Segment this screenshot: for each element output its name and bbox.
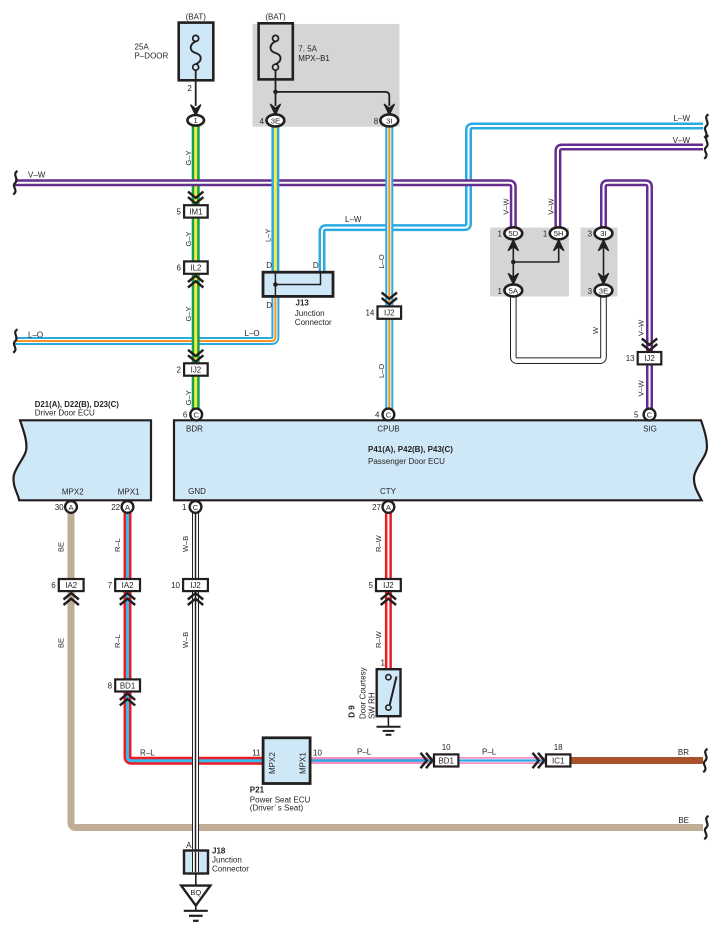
svg-text:L–O: L–O <box>377 364 386 378</box>
ground below D9 <box>377 716 401 735</box>
svg-text:G–Y: G–Y <box>184 390 193 405</box>
pin C (1) GND <box>182 501 201 513</box>
svg-text:6: 6 <box>183 411 188 420</box>
connector BD1 pin 8 <box>108 679 140 705</box>
svg-text:18: 18 <box>554 743 563 752</box>
svg-text:3E: 3E <box>599 286 608 295</box>
gray box relay block 5D/5H/5A <box>490 228 569 297</box>
oval 5A (pin 1) <box>497 284 522 296</box>
connector IJ2 pin 14 <box>365 293 401 319</box>
svg-text:5: 5 <box>177 207 182 216</box>
svg-text:R–W: R–W <box>374 630 383 648</box>
svg-text:1: 1 <box>543 230 548 239</box>
svg-text:A: A <box>125 503 130 512</box>
connector IL2 pin 6 <box>177 261 208 287</box>
svg-text:BD1: BD1 <box>439 756 454 765</box>
connector IJ2 pin 5 <box>368 579 400 605</box>
svg-text:IJ2: IJ2 <box>644 354 655 363</box>
connector IJ2 pin 10 <box>171 579 208 605</box>
wire break squiggle right V-W <box>704 135 708 159</box>
svg-text:7. 5A: 7. 5A <box>298 44 317 53</box>
connector IA2 pin 7 <box>108 579 140 605</box>
wire break squiggle right L-W <box>704 114 708 138</box>
fuse 25A P-DOOR <box>135 12 214 106</box>
svg-text:BE: BE <box>57 542 66 552</box>
Driver Door ECU box D21/D22/D23 <box>13 400 151 501</box>
svg-text:Driver Door ECU: Driver Door ECU <box>35 408 95 417</box>
svg-text:A: A <box>386 503 391 512</box>
svg-text:V–W: V–W <box>28 170 46 179</box>
svg-text:IJ2: IJ2 <box>190 581 201 590</box>
wire P-L BD1#10 to IC1#18 <box>458 757 546 764</box>
connector IA2 pin 6 <box>51 579 83 605</box>
svg-text:W–B: W–B <box>181 536 190 552</box>
svg-text:V–W: V–W <box>547 198 556 215</box>
svg-text:4: 4 <box>375 411 380 420</box>
svg-text:D 9: D 9 <box>348 705 357 718</box>
svg-text:10: 10 <box>313 748 322 757</box>
svg-text:3I: 3I <box>600 229 606 238</box>
svg-text:2: 2 <box>177 366 182 375</box>
connector IJ2 pin 13 <box>626 339 662 365</box>
wire R-W IJ2#5 to D9 switch <box>385 591 392 670</box>
wire G-Y fuse to IM1 <box>192 125 200 206</box>
wire break squiggle left L-O <box>13 329 17 353</box>
svg-text:22: 22 <box>111 503 120 512</box>
block 3I/3E inner wiring <box>598 240 608 284</box>
oval 5H (pin 1) <box>543 227 568 239</box>
svg-text:P21: P21 <box>250 785 265 794</box>
svg-text:IC1: IC1 <box>552 756 564 765</box>
svg-text:6: 6 <box>51 581 56 590</box>
svg-text:D: D <box>266 261 272 270</box>
svg-text:R–W: R–W <box>374 534 383 552</box>
junction connector J18 <box>184 841 249 874</box>
svg-text:MPX–B1: MPX–B1 <box>298 54 330 63</box>
svg-text:2: 2 <box>187 84 192 93</box>
wire P-L P21 pin10 to BD1#10 <box>310 757 434 764</box>
gray box 3I/3E <box>581 228 618 297</box>
svg-text:1: 1 <box>194 116 198 125</box>
svg-text:J13: J13 <box>296 298 310 307</box>
svg-text:P–DOOR: P–DOOR <box>135 52 169 61</box>
svg-text:4: 4 <box>260 117 265 126</box>
svg-text:(Driver’ s Seat): (Driver’ s Seat) <box>250 804 304 813</box>
connector IJ2 pin 2 <box>177 350 208 376</box>
svg-text:(BAT): (BAT) <box>265 12 286 21</box>
arrow into oval 1 <box>191 105 201 116</box>
svg-text:A: A <box>68 503 73 512</box>
svg-text:IJ2: IJ2 <box>191 365 202 374</box>
svg-text:1: 1 <box>182 503 187 512</box>
connector IC1 pin 18 (horizontal) <box>533 743 571 768</box>
svg-text:CPUB: CPUB <box>377 424 399 433</box>
svg-text:1: 1 <box>381 658 386 667</box>
svg-text:MPX1: MPX1 <box>118 487 140 496</box>
svg-text:27: 27 <box>372 503 381 512</box>
pin A (22) MPX1 <box>111 501 133 513</box>
oval 3I (pin 3) <box>588 227 613 239</box>
connector IM1 pin 5 <box>177 192 208 218</box>
svg-text:IJ2: IJ2 <box>384 309 395 318</box>
svg-text:SIG: SIG <box>643 424 657 433</box>
svg-text:7: 7 <box>108 581 113 590</box>
pin C (4) CPUB <box>375 409 394 421</box>
oval 1 <box>187 115 204 126</box>
wire V-W below IJ2#13 to SIG pin <box>646 364 653 409</box>
svg-text:Connector: Connector <box>295 318 332 327</box>
wire break squiggle left V-W <box>13 171 17 195</box>
svg-text:25A: 25A <box>135 43 150 52</box>
svg-text:13: 13 <box>626 354 635 363</box>
svg-text:8: 8 <box>108 682 113 691</box>
pin C (5) SIG <box>634 409 655 421</box>
relay block inner wiring 5D/5H/5A <box>508 240 564 285</box>
wire BR IC1 to right edge <box>571 757 704 764</box>
svg-text:1: 1 <box>497 287 502 296</box>
svg-text:R–L: R–L <box>140 748 155 757</box>
svg-text:G–Y: G–Y <box>184 306 193 321</box>
svg-text:MPX2: MPX2 <box>268 752 277 774</box>
svg-text:A: A <box>186 841 192 850</box>
wire L-O horizontal from left edge up into J13 bottom <box>15 296 275 341</box>
svg-text:W: W <box>591 326 600 334</box>
svg-text:L–O: L–O <box>28 330 43 339</box>
svg-text:R–L: R–L <box>113 538 122 552</box>
svg-text:5D: 5D <box>508 229 518 238</box>
svg-text:G–Y: G–Y <box>184 150 193 165</box>
svg-text:W–B: W–B <box>181 632 190 648</box>
wire V-W bridge from 3I up over to right drop <box>604 183 650 352</box>
svg-text:MPX1: MPX1 <box>299 752 308 774</box>
svg-text:BD1: BD1 <box>120 681 135 690</box>
svg-text:CTY: CTY <box>380 487 397 496</box>
svg-text:BE: BE <box>678 816 689 825</box>
wire W loop 5A to 3E <box>513 296 603 361</box>
svg-text:8: 8 <box>374 117 379 126</box>
svg-text:Passenger Door ECU: Passenger Door ECU <box>368 457 445 466</box>
rotated wire labels <box>57 150 646 648</box>
svg-text:10: 10 <box>171 581 180 590</box>
wire break squiggle right BE <box>704 816 708 840</box>
svg-text:C: C <box>193 410 199 419</box>
svg-text:C: C <box>193 503 199 512</box>
svg-text:D: D <box>313 261 319 270</box>
svg-text:MPX2: MPX2 <box>62 487 84 496</box>
junction connector J13 <box>263 261 333 327</box>
svg-text:L–W: L–W <box>674 114 691 123</box>
svg-text:IA2: IA2 <box>122 581 134 590</box>
svg-text:BDR: BDR <box>186 424 203 433</box>
connector BD1 pin 10 (horizontal) <box>421 743 459 768</box>
svg-text:14: 14 <box>365 309 374 318</box>
oval 3E (pin 3) <box>588 284 613 296</box>
wire W-B GND pin to IJ2#10 <box>192 513 199 579</box>
wire V-W horizontal main (left to 5D) <box>15 183 513 229</box>
arrow into oval 3E <box>270 104 280 115</box>
svg-text:Junction: Junction <box>212 855 242 864</box>
wire R-L BD1#8 corner to P21 pin 11 <box>128 691 265 760</box>
svg-text:5: 5 <box>368 581 373 590</box>
wire V-W top right (to 5H) <box>558 147 703 229</box>
svg-text:V–W: V–W <box>637 319 646 336</box>
wire fuse2 to 3E and branch to 3I <box>273 70 389 106</box>
svg-text:11: 11 <box>252 748 261 757</box>
wire L-W top horizontal + vertical + to J13 <box>322 126 703 273</box>
svg-text:L–O: L–O <box>377 254 386 268</box>
wire L-O 3I to IJ2#14 <box>385 127 393 307</box>
svg-text:P41(A), P42(B), P43(C): P41(A), P42(B), P43(C) <box>368 445 453 454</box>
wire L-Y 3E to J13 <box>271 127 279 273</box>
svg-text:G–Y: G–Y <box>184 231 193 246</box>
svg-text:30: 30 <box>55 503 64 512</box>
oval 3E (pin 4) <box>260 114 285 126</box>
pin C (6) BDR <box>183 409 202 421</box>
wire R-W CTY pin to IJ2#5 <box>385 513 392 579</box>
svg-text:R–L: R–L <box>113 634 122 648</box>
svg-text:L–W: L–W <box>345 215 362 224</box>
svg-text:3E: 3E <box>271 116 280 125</box>
svg-text:5H: 5H <box>554 229 564 238</box>
svg-text:6: 6 <box>177 264 182 273</box>
wire R-L MPX1 pin to IA2#7 <box>124 512 132 579</box>
svg-text:Connector: Connector <box>212 864 249 873</box>
wire G-Y IM1 to IL2 <box>192 217 200 261</box>
svg-text:V–W: V–W <box>501 198 510 215</box>
svg-text:5: 5 <box>634 411 639 420</box>
svg-text:C: C <box>647 410 653 419</box>
fuse 7.5A MPX-B1 <box>259 12 331 79</box>
wire G-Y IL2 to IJ2 <box>192 274 200 364</box>
wire G-Y IJ2 to BDR pin <box>192 375 200 410</box>
svg-text:10: 10 <box>442 743 451 752</box>
oval 3I (pin 8) <box>374 114 398 126</box>
svg-text:L–Y: L–Y <box>264 229 273 242</box>
svg-text:IA2: IA2 <box>65 581 77 590</box>
svg-text:BR: BR <box>678 748 689 757</box>
svg-text:Door Courtesy: Door Courtesy <box>358 667 367 719</box>
labels on horizontal wires <box>28 114 690 825</box>
svg-text:5A: 5A <box>509 286 519 295</box>
svg-text:BQ: BQ <box>190 888 201 897</box>
arrow into oval 3I <box>384 104 394 115</box>
wire break squiggle right BR <box>703 749 707 773</box>
svg-text:Junction: Junction <box>295 309 325 318</box>
svg-text:SW RH: SW RH <box>367 692 376 719</box>
wire L-O IJ2#14 to CPUB pin <box>385 318 393 410</box>
svg-text:IJ2: IJ2 <box>383 581 394 590</box>
svg-text:V–W: V–W <box>637 379 646 396</box>
pin A (27) CTY <box>372 501 394 513</box>
svg-text:V–W: V–W <box>673 136 691 145</box>
svg-text:P–L: P–L <box>482 747 497 756</box>
svg-text:P–L: P–L <box>357 747 372 756</box>
wire BE MPX2 pin down, corner, horizontal to right edge <box>71 512 703 828</box>
svg-text:D: D <box>266 301 272 310</box>
pin A (30) MPX2 <box>55 501 77 513</box>
door courtesy switch D9 <box>348 658 401 719</box>
power seat ECU P21 <box>250 738 323 813</box>
svg-text:BE: BE <box>57 638 66 648</box>
svg-text:GND: GND <box>188 487 206 496</box>
svg-text:3: 3 <box>588 230 593 239</box>
svg-text:3: 3 <box>588 287 593 296</box>
oval 5D (pin 1) <box>497 227 522 239</box>
svg-text:IM1: IM1 <box>189 207 202 216</box>
svg-text:(BAT): (BAT) <box>186 12 207 21</box>
svg-text:C: C <box>386 410 392 419</box>
gray panel MPX-B1 <box>253 24 400 127</box>
wire R-L IA2#7 to BD1#8 <box>124 591 132 680</box>
svg-text:IL2: IL2 <box>190 264 201 273</box>
Passenger Door ECU box P41/P42/P43 <box>174 420 707 500</box>
svg-text:3I: 3I <box>386 116 392 125</box>
shield ground BQ <box>181 874 210 921</box>
svg-text:J18: J18 <box>212 846 226 855</box>
svg-text:1: 1 <box>497 230 502 239</box>
wire W-B IJ2#10 to J18 <box>192 591 199 873</box>
svg-text:L–O: L–O <box>245 329 260 338</box>
